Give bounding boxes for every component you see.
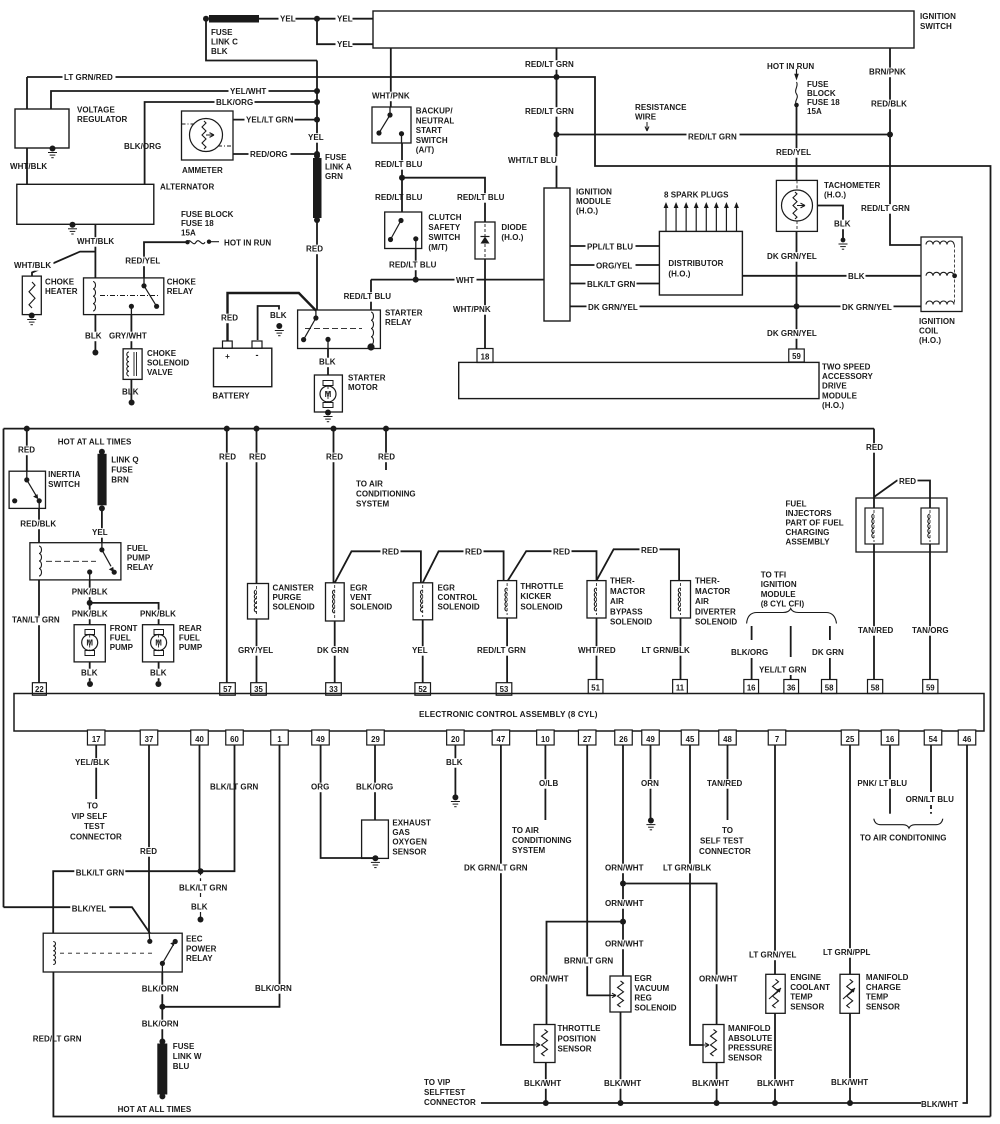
connector 47	[492, 730, 510, 745]
svg-text:REAR: REAR	[179, 624, 202, 633]
wire PNK/BLK fuel pump feed	[89, 580, 91, 625]
wire BLK choke relay ground	[94, 315, 96, 350]
svg-text:LINK W: LINK W	[173, 1052, 202, 1061]
svg-text:RED: RED	[899, 477, 916, 486]
starter relay	[298, 310, 381, 349]
wire RED/BLK inertia to fuel pump relay	[38, 508, 40, 542]
svg-text:RED: RED	[553, 548, 570, 557]
wire YEL/LT GRN TFI to connector 36	[790, 626, 792, 657]
svg-text:TO AIR CONDITONING: TO AIR CONDITONING	[860, 834, 947, 843]
svg-text:SENSOR: SENSOR	[558, 1045, 592, 1054]
svg-text:25: 25	[846, 735, 855, 744]
svg-text:27: 27	[583, 735, 592, 744]
svg-text:MACTOR: MACTOR	[695, 587, 730, 596]
svg-text:OXYGEN: OXYGEN	[392, 838, 427, 847]
svg-text:LT GRN/PPL: LT GRN/PPL	[823, 948, 871, 957]
svg-text:RED: RED	[249, 453, 266, 462]
svg-text:(H.O.): (H.O.)	[824, 191, 846, 200]
node main vertical bus x=317	[316, 61, 318, 157]
clutch safety switch	[385, 212, 422, 249]
svg-text:BRN: BRN	[111, 476, 129, 485]
svg-text:PNK/BLK: PNK/BLK	[72, 588, 108, 597]
svg-text:VENT: VENT	[350, 593, 372, 602]
svg-text:BLK/WHT: BLK/WHT	[831, 1078, 868, 1087]
wire RED/LT GRN to ignition coil	[890, 135, 921, 246]
svg-text:MANIFOLD: MANIFOLD	[728, 1024, 771, 1033]
svg-text:BLK: BLK	[848, 272, 865, 281]
wire YEL/LT GRN	[233, 119, 317, 121]
wire DK GRN/LT GRN pin 47 to TPS	[501, 745, 534, 1045]
svg-text:EXHAUST: EXHAUST	[392, 819, 431, 828]
wire DK GRN/YEL tach to connector 59	[796, 231, 798, 349]
alternator	[17, 184, 154, 224]
wire BLK/WHT coolant sensor to ground bus	[774, 1013, 776, 1103]
svg-text:BLK/WHT: BLK/WHT	[604, 1079, 641, 1088]
svg-text:PUMP: PUMP	[110, 643, 134, 652]
svg-text:AMMETER: AMMETER	[182, 166, 223, 175]
wire BLK/ORG pin 29 to EGO sensor	[374, 745, 376, 820]
connector 49 right	[642, 730, 660, 745]
svg-text:SOLENOID: SOLENOID	[273, 603, 315, 612]
svg-text:DK GRN/YEL: DK GRN/YEL	[588, 303, 638, 312]
svg-text:COOLANT: COOLANT	[790, 983, 830, 992]
svg-text:RED/LT GRN: RED/LT GRN	[525, 60, 574, 69]
wire YEL/BLK pin 17	[95, 745, 97, 799]
svg-text:SYSTEM: SYSTEM	[512, 846, 545, 855]
svg-text:RED/LT GRN: RED/LT GRN	[861, 204, 910, 213]
svg-text:WHT/PNK: WHT/PNK	[372, 92, 410, 101]
wire ORN/LT BLU pin 54	[930, 745, 932, 792]
fuel injectors assembly	[856, 498, 947, 552]
svg-text:RED: RED	[382, 548, 399, 557]
wire DK GRN to connector 33	[334, 621, 336, 683]
connector 54	[924, 730, 942, 745]
svg-text:ORG/YEL: ORG/YEL	[596, 262, 632, 271]
wire RED jumper EGR vent to EGR control	[335, 551, 421, 583]
wire WHT/BLK regulator to alternator	[26, 148, 28, 184]
svg-text:RED: RED	[326, 453, 343, 462]
wire PPL/LT BLU module to distributor	[570, 245, 659, 247]
wire WHT/LT BLU to ignition module	[556, 135, 558, 189]
svg-text:BRN/LT GRN: BRN/LT GRN	[564, 957, 613, 966]
svg-text:RED/BLK: RED/BLK	[871, 100, 907, 109]
wire BLK battery	[258, 306, 279, 340]
svg-text:PURGE: PURGE	[273, 593, 302, 602]
svg-text:HOT AT ALL TIMES: HOT AT ALL TIMES	[58, 438, 132, 447]
connector 1	[271, 730, 289, 745]
wire HOT AT ALL TIMES bus	[4, 428, 875, 430]
choke solenoid valve	[123, 349, 142, 380]
connector 37	[140, 730, 158, 745]
wire BLK/ORN pin 1	[162, 745, 279, 1007]
svg-text:THER-: THER-	[610, 577, 635, 586]
svg-text:IGNITION: IGNITION	[761, 580, 797, 589]
wire LT GRN/BLK pin 45 to MAP sensor	[690, 745, 703, 1045]
engine coolant temp sensor	[766, 974, 785, 1013]
EGR vacuum reg solenoid	[610, 976, 631, 1012]
svg-text:SWITCH: SWITCH	[428, 233, 460, 242]
svg-text:RED: RED	[866, 443, 883, 452]
wire RED jumper throttle kicker to thermactor bypass	[508, 551, 597, 580]
svg-text:ALTERNATOR: ALTERNATOR	[160, 183, 214, 192]
svg-text:SOLENOID: SOLENOID	[438, 603, 480, 612]
svg-text:RED: RED	[221, 314, 238, 323]
wire GRY/WHT	[130, 315, 132, 349]
svg-text:YEL: YEL	[280, 15, 296, 24]
svg-text:RELAY: RELAY	[127, 563, 154, 572]
svg-text:LT GRN/BLK: LT GRN/BLK	[663, 864, 712, 873]
svg-text:CONTROL: CONTROL	[438, 593, 478, 602]
wire ORN/WHT branch to TPS	[547, 922, 624, 1025]
wire DK GRN TFI to connector 58	[829, 626, 831, 640]
connector 60	[226, 730, 244, 745]
svg-text:TEMP: TEMP	[790, 993, 813, 1002]
svg-text:START: START	[416, 126, 442, 135]
svg-text:BLK/WHT: BLK/WHT	[757, 1079, 794, 1088]
svg-text:RED/LT GRN: RED/LT GRN	[525, 107, 574, 116]
wire BLK/WHT ground bus	[481, 1102, 921, 1104]
svg-text:BATTERY: BATTERY	[212, 392, 250, 401]
electronic control assembly	[14, 694, 984, 732]
wire BLK/YEL to EEC relay	[4, 907, 151, 933]
svg-text:IGNITION: IGNITION	[919, 317, 955, 326]
svg-text:RED: RED	[465, 548, 482, 557]
connector 52	[415, 683, 431, 696]
svg-text:CHARGE: CHARGE	[866, 983, 902, 992]
choke relay	[84, 278, 164, 315]
wire WHT/PNK ignition switch to backup switch	[390, 48, 392, 107]
svg-text:GRY/WHT: GRY/WHT	[109, 332, 147, 341]
svg-text:ORN/LT BLU: ORN/LT BLU	[906, 795, 955, 804]
wire LT GRN/BLK to connector 11	[680, 618, 682, 680]
svg-text:RED: RED	[306, 245, 323, 254]
connector 58 TFI	[822, 680, 837, 694]
svg-text:FUSE 18: FUSE 18	[181, 219, 214, 228]
svg-text:WHT: WHT	[456, 276, 474, 285]
svg-text:BLOCK: BLOCK	[807, 89, 836, 98]
svg-text:59: 59	[926, 684, 935, 693]
svg-text:CONNECTOR: CONNECTOR	[424, 1098, 476, 1107]
connector 20	[447, 730, 465, 745]
svg-text:29: 29	[371, 735, 380, 744]
wire TAN/RED pin 48	[727, 745, 729, 820]
air conditioning brace	[874, 819, 943, 829]
svg-text:SOLENOID: SOLENOID	[350, 603, 392, 612]
wire YEL fuse link C to ignition switch	[258, 18, 373, 20]
wire BLK tachometer ground	[818, 206, 844, 241]
wire RED jumper EGR control to throttle kicker	[423, 551, 504, 583]
connector 22	[32, 683, 46, 696]
ignition switch	[373, 11, 914, 48]
svg-text:YEL: YEL	[337, 40, 353, 49]
connector 59 injector	[923, 680, 938, 694]
two speed accessory drive module	[459, 362, 819, 398]
manifold charge temp sensor	[840, 974, 859, 1013]
svg-text:BLK/WHT: BLK/WHT	[524, 1079, 561, 1088]
svg-text:16: 16	[886, 735, 895, 744]
svg-text:16: 16	[747, 684, 756, 693]
wire RED inertia switch feed	[24, 426, 30, 432]
svg-text:RELAY: RELAY	[167, 287, 194, 296]
svg-text:STARTER: STARTER	[385, 309, 423, 318]
wire PNK/LT BLU pin 16	[889, 745, 891, 814]
svg-text:DK GRN: DK GRN	[317, 646, 349, 655]
svg-text:SYSTEM: SYSTEM	[356, 500, 389, 509]
svg-text:HOT IN RUN: HOT IN RUN	[224, 239, 271, 248]
svg-text:SENSOR: SENSOR	[392, 847, 426, 856]
connector 7	[768, 730, 786, 745]
wire YEL/WHT	[51, 91, 317, 109]
connector 33	[326, 683, 342, 696]
svg-text:ABSOLUTE: ABSOLUTE	[728, 1034, 773, 1043]
svg-text:AIR: AIR	[610, 597, 624, 606]
svg-text:37: 37	[145, 735, 154, 744]
svg-text:26: 26	[619, 735, 628, 744]
ammeter	[182, 111, 234, 160]
fuse link A	[314, 153, 320, 159]
svg-text:RED: RED	[18, 446, 35, 455]
svg-text:18: 18	[481, 353, 490, 362]
svg-text:MACTOR: MACTOR	[610, 587, 645, 596]
wire LT GRN/PPL pin 25 to charge temp sensor	[849, 745, 851, 974]
svg-text:BRN/PNK: BRN/PNK	[869, 68, 906, 77]
svg-text:THROTTLE: THROTTLE	[520, 582, 564, 591]
svg-text:ORN/WHT: ORN/WHT	[530, 975, 569, 984]
svg-text:BLK/LT GRN: BLK/LT GRN	[587, 280, 636, 289]
svg-text:HOT IN RUN: HOT IN RUN	[767, 62, 814, 71]
svg-text:KICKER: KICKER	[520, 592, 551, 601]
wire RED EGR vent feed	[331, 426, 337, 432]
svg-text:LT GRN/BLK: LT GRN/BLK	[642, 646, 691, 655]
svg-text:RELAY: RELAY	[385, 318, 412, 327]
connector 10	[537, 730, 555, 745]
svg-text:SELFTEST: SELFTEST	[424, 1088, 465, 1097]
svg-text:PNK/BLK: PNK/BLK	[140, 610, 176, 619]
svg-text:17: 17	[92, 735, 101, 744]
svg-text:51: 51	[591, 684, 600, 693]
svg-text:(H.O.): (H.O.)	[668, 270, 690, 279]
wire LT GRN/RED	[27, 76, 557, 78]
svg-text:CANISTER: CANISTER	[273, 584, 314, 593]
svg-text:LINK Q: LINK Q	[111, 456, 138, 465]
svg-text:BLK: BLK	[191, 903, 208, 912]
svg-text:POWER: POWER	[186, 944, 217, 953]
svg-text:ORG: ORG	[311, 783, 329, 792]
svg-text:48: 48	[723, 735, 732, 744]
TFI brace	[747, 609, 837, 624]
svg-text:20: 20	[451, 735, 460, 744]
connector 16 right	[881, 730, 899, 745]
connector 17	[87, 730, 105, 745]
svg-text:LT GRN/YEL: LT GRN/YEL	[749, 951, 797, 960]
svg-text:CHARGING: CHARGING	[786, 528, 830, 537]
svg-text:YEL: YEL	[412, 646, 428, 655]
svg-text:FUSE: FUSE	[211, 28, 233, 37]
svg-text:SWITCH: SWITCH	[48, 480, 80, 489]
wire LT GRN/YEL pin 7 to coolant sensor	[774, 745, 776, 974]
svg-text:47: 47	[497, 735, 506, 744]
svg-text:BLK: BLK	[122, 388, 139, 397]
svg-text:BLK/ORG: BLK/ORG	[356, 783, 393, 792]
svg-text:MODULE: MODULE	[576, 197, 612, 206]
svg-text:TAN/ORG: TAN/ORG	[912, 626, 949, 635]
wire YEL to connector 52	[422, 620, 424, 683]
rear fuel pump	[143, 625, 174, 662]
EGR vent solenoid	[326, 583, 345, 621]
svg-text:40: 40	[195, 735, 204, 744]
connector 25	[841, 730, 859, 745]
svg-text:FUSE: FUSE	[325, 153, 347, 162]
svg-text:PNK/BLK: PNK/BLK	[72, 610, 108, 619]
svg-text:VACUUM: VACUUM	[634, 984, 669, 993]
svg-text:58: 58	[871, 684, 880, 693]
distributor	[659, 231, 742, 295]
svg-text:DK GRN/LT GRN: DK GRN/LT GRN	[464, 864, 528, 873]
connector 26	[615, 730, 633, 745]
svg-text:PUMP: PUMP	[127, 554, 151, 563]
svg-text:LT GRN/RED: LT GRN/RED	[64, 73, 113, 82]
wire WHT/PNK diode to connector 18	[484, 259, 486, 348]
svg-text:SENSOR: SENSOR	[866, 1002, 900, 1011]
thermactor air diverter solenoid	[671, 581, 691, 618]
wire WHT clutch to ignition module	[371, 279, 544, 281]
wire BLK/WHT EGR vac reg to ground bus	[620, 1012, 622, 1103]
svg-text:BLK: BLK	[446, 758, 463, 767]
svg-text:ORN/WHT: ORN/WHT	[605, 940, 644, 949]
svg-text:O/LB: O/LB	[539, 779, 558, 788]
choke heater	[22, 276, 41, 315]
svg-text:SELF TEST: SELF TEST	[700, 837, 744, 846]
svg-text:8 SPARK PLUGS: 8 SPARK PLUGS	[664, 191, 729, 200]
svg-text:ORN: ORN	[641, 779, 659, 788]
wire WHT/BLK to choke heater	[32, 252, 95, 277]
svg-text:-: -	[255, 350, 258, 360]
svg-text:SOLENOID: SOLENOID	[634, 1003, 676, 1012]
svg-text:FUSE: FUSE	[807, 80, 829, 89]
svg-text:WHT/PNK: WHT/PNK	[453, 305, 491, 314]
svg-text:TO AIR: TO AIR	[356, 480, 383, 489]
svg-text:TAN/RED: TAN/RED	[707, 779, 742, 788]
svg-text:54: 54	[929, 735, 938, 744]
svg-text:SOLENOID: SOLENOID	[520, 602, 562, 611]
wire GRY/YEL to connector 35	[256, 619, 258, 683]
wire RED/LT BLU to diode	[402, 178, 485, 222]
svg-text:TEMP: TEMP	[866, 993, 889, 1002]
svg-text:AIR: AIR	[695, 597, 709, 606]
svg-text:58: 58	[825, 684, 834, 693]
svg-text:BLK: BLK	[319, 358, 336, 367]
wire WHT/RED to connector 51	[596, 618, 598, 680]
svg-text:BYPASS: BYPASS	[610, 607, 643, 616]
svg-text:CHOKE: CHOKE	[45, 278, 75, 287]
svg-text:LINK A: LINK A	[325, 163, 352, 172]
svg-text:VIP SELF: VIP SELF	[72, 812, 108, 821]
fuel pump relay	[30, 543, 121, 580]
wire fuse link C feed	[206, 19, 317, 61]
wire BLK/WHT TPS to ground bus	[545, 1063, 547, 1104]
wire BLK/WHT MAP to ground bus	[716, 1063, 718, 1104]
wire RED/LT GRN ignition switch down	[556, 48, 558, 135]
injector right	[921, 508, 939, 544]
EEC power relay	[43, 933, 182, 972]
svg-text:RED/LT BLU: RED/LT BLU	[344, 292, 392, 301]
wire TAN/RED injector to connector 58	[873, 544, 875, 680]
backup/neutral start switch	[372, 107, 411, 143]
wire ORN/WHT branch to MAP sensor	[623, 884, 717, 1025]
wire TAN/LT GRN relay to connector 22	[38, 580, 40, 683]
wire RED jumper to right injector	[874, 481, 930, 509]
svg-text:WHT/BLK: WHT/BLK	[77, 237, 114, 246]
svg-text:(H.O.): (H.O.)	[919, 336, 941, 345]
svg-text:YEL: YEL	[337, 15, 353, 24]
svg-text:BLK: BLK	[834, 220, 851, 229]
throttle position sensor	[534, 1025, 555, 1063]
svg-text:WHT/LT BLU: WHT/LT BLU	[508, 156, 557, 165]
svg-text:BLK/ORG: BLK/ORG	[216, 98, 253, 107]
wire RED battery to starter relay	[228, 293, 316, 341]
svg-text:59: 59	[792, 352, 801, 361]
svg-text:BLK/WHT: BLK/WHT	[921, 1100, 958, 1109]
svg-text:CHOKE: CHOKE	[147, 349, 177, 358]
wire BLK distributor to coil	[743, 275, 922, 277]
svg-text:REG: REG	[634, 994, 652, 1003]
svg-text:FUSE: FUSE	[111, 466, 133, 475]
connector 29	[367, 730, 385, 745]
svg-text:VOLTAGE: VOLTAGE	[77, 106, 115, 115]
svg-text:BLK: BLK	[270, 311, 287, 320]
ignition coil	[921, 237, 962, 312]
svg-text:POSITION: POSITION	[558, 1034, 597, 1043]
svg-text:COIL: COIL	[919, 327, 938, 336]
svg-text:MOTOR: MOTOR	[348, 383, 378, 392]
svg-text:(8 CYL CFI): (8 CYL CFI)	[761, 600, 805, 609]
wire BLK/LT GRN pin 40	[199, 745, 201, 871]
wire RED/LT BLU to starter relay coil	[370, 280, 372, 310]
wire RED/YEL fuse to tachometer	[796, 105, 798, 180]
svg-text:SENSOR: SENSOR	[790, 1002, 824, 1011]
connector 46	[958, 730, 976, 745]
svg-text:DIVERTER: DIVERTER	[695, 607, 736, 616]
svg-text:FUEL: FUEL	[179, 634, 200, 643]
svg-text:60: 60	[230, 735, 239, 744]
wire YEL fuse link Q to relay	[101, 508, 103, 542]
svg-text:EGR: EGR	[438, 584, 456, 593]
svg-text:SOLENOID: SOLENOID	[147, 359, 189, 368]
svg-text:SWITCH: SWITCH	[416, 136, 448, 145]
svg-text:CONDITIONING: CONDITIONING	[356, 490, 416, 499]
svg-text:THER-: THER-	[695, 577, 720, 586]
svg-text:INJECTORS: INJECTORS	[786, 509, 833, 518]
svg-text:YEL/LT GRN: YEL/LT GRN	[246, 116, 294, 125]
svg-text:IGNITION: IGNITION	[920, 12, 956, 21]
svg-text:7: 7	[775, 735, 779, 744]
svg-text:PPL/LT BLU: PPL/LT BLU	[587, 243, 633, 252]
svg-text:49: 49	[316, 735, 325, 744]
svg-text:DK GRN/YEL: DK GRN/YEL	[842, 303, 892, 312]
svg-text:TACHOMETER: TACHOMETER	[824, 181, 881, 190]
svg-text:NEUTRAL: NEUTRAL	[416, 116, 455, 125]
connector 59	[789, 349, 805, 362]
svg-text:RED/YEL: RED/YEL	[125, 257, 160, 266]
svg-text:MANIFOLD: MANIFOLD	[866, 973, 909, 982]
wire BLK/ORG	[145, 102, 317, 184]
svg-text:RED/LT GRN: RED/LT GRN	[688, 133, 737, 142]
svg-text:(H.O.): (H.O.)	[822, 401, 844, 410]
svg-text:ACCESSORY: ACCESSORY	[822, 372, 873, 381]
wire RED jumper bypass to diverter	[597, 549, 680, 580]
svg-text:GAS: GAS	[392, 828, 410, 837]
connector 18	[477, 349, 493, 363]
